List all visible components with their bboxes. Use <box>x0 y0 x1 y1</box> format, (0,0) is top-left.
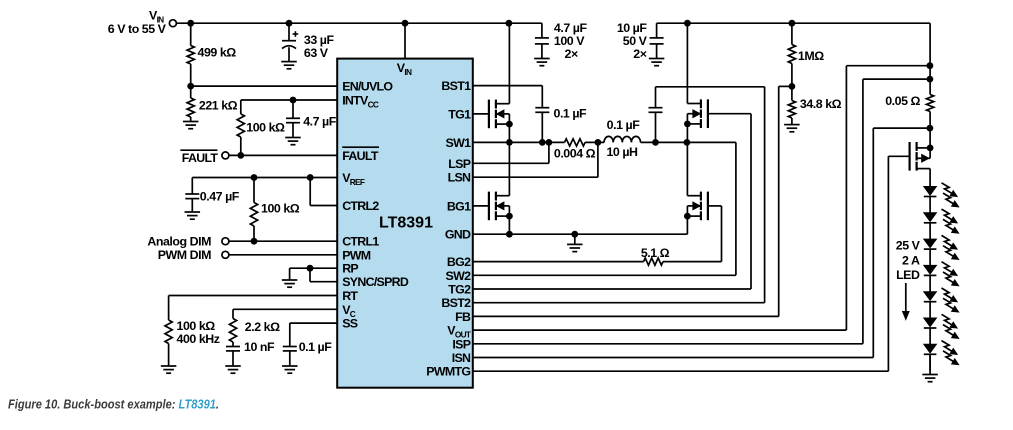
svg-text:BG1: BG1 <box>447 199 471 213</box>
svg-text:PWM: PWM <box>342 248 371 262</box>
svg-text:ISN: ISN <box>452 351 471 365</box>
svg-text:499 kΩ: 499 kΩ <box>198 46 237 60</box>
svg-text:ISP: ISP <box>452 337 470 351</box>
svg-text:SYNC/SPRD: SYNC/SPRD <box>342 275 409 289</box>
svg-text:EN/UVLO: EN/UVLO <box>342 80 393 94</box>
svg-text:100 kΩ: 100 kΩ <box>177 319 216 333</box>
svg-text:221 kΩ: 221 kΩ <box>199 99 238 113</box>
svg-text:5.1 Ω: 5.1 Ω <box>641 246 670 260</box>
svg-text:0.05 Ω: 0.05 Ω <box>885 94 920 108</box>
svg-text:RP: RP <box>342 262 358 276</box>
svg-text:TG2: TG2 <box>448 283 471 297</box>
svg-text:PWM DIM: PWM DIM <box>158 248 211 262</box>
svg-text:SW1: SW1 <box>446 136 472 150</box>
svg-text:2.2 kΩ: 2.2 kΩ <box>245 320 280 334</box>
svg-text:LT8391: LT8391 <box>379 215 433 232</box>
svg-text:FAULT: FAULT <box>342 149 379 163</box>
svg-text:50 V: 50 V <box>623 34 648 48</box>
svg-text:100 kΩ: 100 kΩ <box>261 202 300 216</box>
svg-text:33 µF: 33 µF <box>304 33 335 47</box>
svg-text:SW2: SW2 <box>446 269 472 283</box>
svg-text:LSP: LSP <box>448 157 470 171</box>
svg-text:2 A: 2 A <box>902 253 920 267</box>
svg-text:BST1: BST1 <box>441 79 471 93</box>
svg-text:1MΩ: 1MΩ <box>798 49 824 63</box>
svg-text:CTRL1: CTRL1 <box>342 235 379 249</box>
svg-text:100 V: 100 V <box>554 34 585 48</box>
svg-text:BST2: BST2 <box>441 296 471 310</box>
svg-text:2×: 2× <box>633 47 646 61</box>
svg-text:0.1 µF: 0.1 µF <box>554 106 588 120</box>
svg-text:SS: SS <box>342 317 358 331</box>
svg-text:34.8 kΩ: 34.8 kΩ <box>800 97 842 111</box>
svg-text:0.47 µF: 0.47 µF <box>200 189 240 203</box>
svg-text:4.7 µF: 4.7 µF <box>554 21 588 35</box>
svg-text:0.1 µF: 0.1 µF <box>299 340 333 354</box>
svg-text:CTRL2: CTRL2 <box>342 199 379 213</box>
svg-text:2×: 2× <box>565 47 578 61</box>
svg-text:GND: GND <box>445 228 471 242</box>
svg-text:Analog DIM: Analog DIM <box>147 235 211 249</box>
svg-text:4.7 µF: 4.7 µF <box>303 114 337 128</box>
svg-text:LED: LED <box>896 268 920 282</box>
svg-text:TG1: TG1 <box>448 107 471 121</box>
svg-text:10 nF: 10 nF <box>244 340 275 354</box>
svg-text:BG2: BG2 <box>447 255 471 269</box>
svg-text:FAULT: FAULT <box>182 151 219 165</box>
svg-text:63 V: 63 V <box>304 46 329 60</box>
svg-text:0.004 Ω: 0.004 Ω <box>554 147 596 161</box>
svg-text:0.1 µF: 0.1 µF <box>607 118 641 132</box>
svg-text:PWMTG: PWMTG <box>426 365 470 379</box>
svg-text:10 µF: 10 µF <box>617 21 648 35</box>
svg-text:LSN: LSN <box>448 171 471 185</box>
svg-text:25 V: 25 V <box>896 239 921 253</box>
svg-text:400 kHz: 400 kHz <box>177 332 220 346</box>
svg-text:6 V to 55 V: 6 V to 55 V <box>108 22 167 36</box>
svg-text:Figure 10. Buck-boost example:: Figure 10. Buck-boost example: LT8391. <box>8 397 219 412</box>
svg-text:FB: FB <box>455 310 471 324</box>
svg-text:100 kΩ: 100 kΩ <box>246 120 285 134</box>
svg-text:RT: RT <box>342 289 358 303</box>
svg-text:10 µH: 10 µH <box>606 145 638 159</box>
